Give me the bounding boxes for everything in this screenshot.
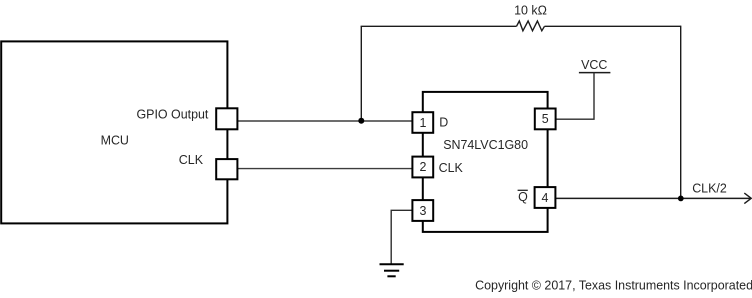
svg-text:MCU: MCU [101, 133, 129, 147]
pin square GPIO Output on MCU [216, 108, 237, 129]
wire top rail left (to resistor) [361, 25, 517, 27]
pin square CLK on MCU [216, 159, 237, 179]
svg-text:GPIO Output: GPIO Output [136, 108, 208, 122]
pin 4 square (Q-bar output) [535, 187, 556, 208]
svg-text:SN74LVC1G80: SN74LVC1G80 [443, 138, 528, 152]
pin 3 square (GND) [412, 200, 433, 221]
wire GPIO Output to D (net between MCU and flip-flop data input) [227, 120, 422, 122]
svg-text:D: D [439, 115, 448, 129]
svg-text:Q: Q [518, 190, 528, 204]
label Q-bar pin name with overbar [518, 190, 529, 204]
wire pin 3 to ground [391, 210, 412, 264]
svg-text:1: 1 [419, 116, 426, 130]
svg-text:CLK: CLK [439, 161, 464, 175]
wire VCC to pin 5 [556, 73, 594, 120]
svg-text:10 kΩ: 10 kΩ [514, 3, 547, 17]
svg-text:2: 2 [419, 160, 426, 174]
MCU block [1, 41, 227, 223]
arrowhead CLK/2 output [744, 193, 751, 204]
VCC supply symbol [579, 58, 611, 73]
pin 2 square (CLK input) [412, 157, 433, 178]
ground symbol [380, 264, 404, 276]
svg-text:3: 3 [419, 204, 426, 218]
wire output Q-bar to CLK/2 arrow [556, 197, 751, 199]
svg-text:4: 4 [542, 191, 549, 205]
svg-text:CLK/2: CLK/2 [692, 181, 727, 195]
wire feedback left vertical (node D up to top rail) [360, 26, 362, 121]
svg-text:5: 5 [542, 112, 549, 126]
resistor R 10 kOhm zigzag [517, 21, 545, 31]
pin 1 square (D input) [412, 112, 433, 133]
svg-text:CLK: CLK [179, 153, 204, 167]
pin 5 square (VCC) [535, 109, 556, 130]
junction node at D input feedback tap [358, 118, 364, 124]
wire feedback right vertical (top rail down to Q-bar output net) [680, 26, 682, 199]
wire top rail right (resistor to right vertical) [545, 25, 681, 27]
op U1 SN74LVC1G80 flip-flop body [423, 92, 548, 232]
junction node at Q-bar output feedback tap [678, 196, 684, 202]
svg-text:VCC: VCC [581, 58, 607, 72]
svg-text:Copyright © 2017, Texas Instru: Copyright © 2017, Texas Instruments Inco… [475, 278, 752, 292]
wire CLK from MCU to flip-flop clock input [227, 168, 422, 170]
